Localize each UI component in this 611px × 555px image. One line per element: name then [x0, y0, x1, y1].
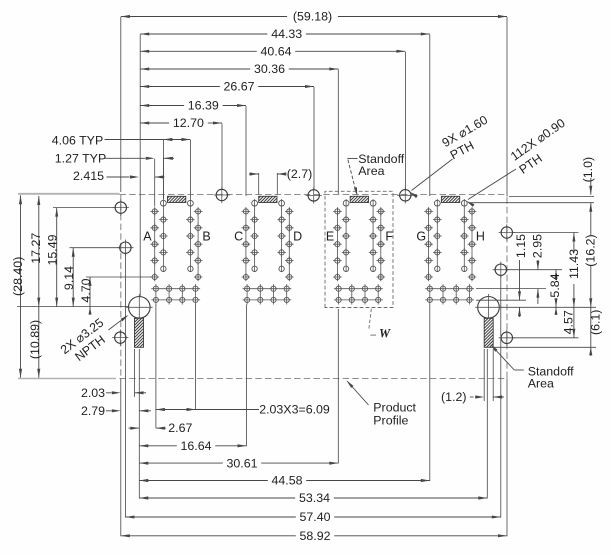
svg-text:2.03: 2.03 [81, 386, 105, 400]
svg-text:57.40: 57.40 [299, 510, 330, 524]
board outline left edge (dashed product profile) [120, 195, 122, 379]
pin column C (lead lines) [245, 208, 247, 281]
svg-text:4.57: 4.57 [562, 310, 576, 334]
dimension 4.57 right [573, 307, 575, 338]
svg-text:F: F [385, 229, 393, 243]
dimension 40.64 (top) [140, 50, 257, 52]
dimension 9.14 left [72, 248, 74, 307]
standoff hatch rectangle group A-B [168, 196, 186, 202]
svg-text:30.61: 30.61 [226, 456, 257, 470]
svg-text:Profile: Profile [373, 414, 408, 428]
board outline top edge (gray extension, left) [18, 193, 120, 195]
pin column A inner pins [161, 200, 167, 206]
NPTH hole right (2X D3.25) [478, 297, 500, 319]
svg-text:Product: Product [373, 401, 416, 415]
extension line y=338 (right PTH row 2) [514, 337, 579, 339]
svg-text:2.95: 2.95 [530, 234, 544, 258]
dimension 17.27 left [38, 196, 40, 307]
PTH hole left 3 [112, 329, 128, 345]
svg-text:1.27 TYP: 1.27 TYP [55, 151, 106, 165]
standoff hatch rectangle group G-H [441, 196, 459, 202]
extension line y=306.6 (NPTH left center row) [17, 306, 128, 308]
leader to NPTH right standoff bar [514, 369, 524, 371]
dimension 53.34 (bottom) [139, 497, 295, 499]
dimension (2.7) hatch width [258, 173, 260, 195]
pin column E outer pins [333, 207, 342, 216]
leader to standoff hatch E-F (dashed) [347, 158, 357, 160]
extension line x=338.3 (column E, bottom) [337, 309, 339, 464]
NPTH hole left (2X D3.25) [129, 297, 151, 319]
dimension 26.67 (top) [140, 86, 220, 88]
NPTH right standoff hatch bar [484, 318, 493, 347]
extension line y=307.3 (NPTH right center row) [501, 306, 597, 308]
extension line y=247.7 (left inset PTH row) [70, 247, 119, 249]
svg-text:E: E [326, 229, 334, 243]
svg-text:(6.1): (6.1) [588, 310, 602, 335]
PTH hole top 1 [214, 187, 230, 203]
extension line x=429.8 (column G, bottom) [429, 305, 431, 481]
dimension 16.39 (top) [140, 105, 184, 107]
pin column B inner pins [188, 200, 194, 206]
bottom pin grid group G-H pins [427, 286, 432, 291]
extension line x=507 (board right edge, bottom) [506, 379, 508, 537]
dimension 4.70 left [89, 277, 91, 307]
extension line y=347.3 (hatch bar bottom, right) [494, 346, 596, 348]
svg-text:16.64: 16.64 [180, 439, 211, 453]
svg-text:(16.2): (16.2) [583, 234, 597, 266]
svg-text:30.36: 30.36 [254, 62, 285, 76]
svg-text:4.70: 4.70 [79, 278, 93, 302]
pin column C inner pins [252, 200, 258, 206]
svg-text:Area: Area [358, 164, 384, 178]
pin column F outer pins [377, 207, 386, 216]
svg-text:44.33: 44.33 [271, 27, 302, 41]
svg-text:5.84: 5.84 [548, 273, 562, 297]
pin column F (lead lines) [372, 199, 374, 272]
leader arrow to NPTH left [108, 316, 126, 330]
svg-text:58.92: 58.92 [299, 529, 330, 543]
dimension 44.33 (top) [140, 33, 267, 35]
extension line x=134.5 (hatch bar left edge) [134, 349, 136, 397]
extension line x=500.8 (right inset PTH column, bottom) [500, 276, 502, 518]
extension line x=222 (PTH top 1) [221, 124, 223, 189]
bottom pin grid group E-F pins [336, 286, 341, 291]
svg-text:12.70: 12.70 [173, 116, 204, 130]
svg-text:15.49: 15.49 [45, 234, 59, 265]
extension line y=288.6 (grid row 1, right) [476, 288, 546, 290]
extension line y=196.5 (top edge, right) [509, 196, 594, 198]
svg-text:53.34: 53.34 [299, 491, 330, 505]
dimension (10.89) left [38, 307, 40, 378]
svg-text:17.27: 17.27 [29, 233, 43, 264]
extension line y=300.2 (grid row 2, right) [476, 299, 526, 301]
svg-text:9.14: 9.14 [62, 266, 76, 290]
extension line x=125.4 (left inset PTH column, bottom) [124, 254, 126, 518]
bottom pin grid group G-H (lead lines) [425, 288, 474, 290]
pin column E (lead lines) [336, 208, 338, 281]
standoff hatch rectangle group E-F [350, 196, 368, 202]
extension line x=120.8 (board left edge, bottom) [120, 379, 122, 537]
dimension 57.40 (bottom) [125, 516, 295, 518]
extension line y=232.5 (right PTH row 1) [514, 232, 579, 234]
extension line x=156.1 (grid column 1) [155, 304, 157, 428]
dimension 2.03X3=6.09 (bottom grid pitch) [156, 409, 196, 411]
board outline bottom edge (gray extension, left) [18, 378, 116, 380]
svg-text:11.43: 11.43 [567, 249, 581, 279]
PTH hole right 1 [499, 224, 515, 240]
bottom pin grid group A-B (lead lines) [151, 288, 200, 290]
board outline bottom edge (dashed product profile) [120, 378, 508, 380]
leader to W label (dashed) [369, 309, 372, 331]
extension line y=269.7 (right inset PTH row) [508, 269, 563, 271]
extension line y=202.7 (first pin row, right) [470, 202, 594, 204]
dimension (16.2) right [590, 203, 592, 235]
extension line x=246.5 (column C, bottom) [246, 305, 248, 447]
extension line x=140.2 (NPTH left center column) [139, 35, 141, 297]
svg-text:2.79: 2.79 [81, 404, 105, 418]
extension line x=507 for (59.18) [506, 17, 508, 197]
svg-text:B: B [202, 229, 210, 243]
extension line y=207.6 (left PTH row) [53, 207, 114, 209]
dimension 44.58 (bottom) [139, 480, 267, 482]
pin column D outer pins [285, 207, 294, 216]
dimension 58.92 (bottom) [121, 535, 296, 537]
bottom pin grid group C-D pins [245, 286, 250, 291]
svg-text:W: W [379, 327, 391, 341]
dimension 2.67 (bottom) [130, 427, 139, 430]
pin column D inner pins [279, 200, 285, 206]
svg-text:26.67: 26.67 [223, 80, 254, 94]
svg-text:44.58: 44.58 [271, 474, 302, 488]
pin column G (lead lines) [428, 208, 430, 281]
extension line x=429.8 (column G) [429, 35, 431, 197]
dimension 30.61 (bottom) [139, 462, 223, 464]
pin column H (lead lines) [463, 199, 465, 272]
svg-text:Area: Area [528, 377, 554, 391]
dimension (28.40) left [20, 195, 22, 377]
dimension (6.1) right [590, 307, 592, 347]
PTH hole right 3 [499, 330, 515, 346]
svg-text:(10.89): (10.89) [28, 320, 42, 359]
pin column A (lead lines) [154, 208, 156, 281]
svg-text:(28.40): (28.40) [11, 257, 25, 296]
svg-text:G: G [416, 229, 426, 243]
extension line x=246 (column C) [245, 106, 247, 196]
extension line x=338.3 (column E) [337, 70, 339, 195]
dimension 30.36 (top) [140, 68, 250, 70]
pin column H outer pins [468, 207, 477, 216]
leader arrow to PTH top 3 [412, 159, 453, 191]
svg-text:H: H [476, 229, 485, 243]
pin column A outer pins [150, 207, 159, 216]
svg-text:16.39: 16.39 [188, 99, 219, 113]
extension line x=120.8 for (59.18) [120, 17, 122, 192]
PTH hole top 3 [397, 187, 413, 203]
pin column B outer pins [194, 207, 203, 216]
svg-text:A: A [143, 229, 152, 243]
svg-text:2.03X3=6.09: 2.03X3=6.09 [259, 403, 330, 417]
svg-text:D: D [293, 229, 302, 243]
extension line x=196.3 (grid column 4) [195, 304, 197, 410]
dimension 12.70 (top) [140, 122, 169, 124]
standoff hatch rectangle group C-D [259, 196, 277, 202]
pin column D (lead lines) [281, 199, 283, 272]
pin column H inner pins [461, 200, 467, 206]
svg-text:2.415: 2.415 [73, 169, 104, 183]
svg-text:C: C [234, 229, 243, 243]
dimension (59.18) (top) [121, 16, 287, 18]
pin column B (lead lines) [189, 199, 191, 272]
bottom pin grid group E-F (lead lines) [334, 288, 383, 290]
NPTH left standoff hatch bar [135, 318, 144, 347]
svg-text:(59.18): (59.18) [293, 10, 332, 24]
standoff area W dashed box [325, 191, 393, 307]
dimension 15.49 left [56, 208, 58, 307]
extension line x=139.3 (NPTH left center, bottom) [138, 349, 140, 498]
extension line x=487.3 (NPTH right center, bottom) [486, 349, 488, 498]
PTH hole top 2 [306, 187, 322, 203]
bottom pin grid group C-D (lead lines) [243, 288, 292, 290]
svg-text:(1.0): (1.0) [581, 157, 595, 182]
svg-text:(1.2): (1.2) [441, 390, 466, 404]
PTH hole right 2 [493, 262, 509, 278]
dimension 5.84 right [555, 270, 557, 277]
PTH hole left 1 [113, 199, 129, 215]
dimension 16.64 (bottom) [139, 445, 177, 447]
bottom pin grid group A-B pins [153, 286, 158, 291]
svg-text:40.64: 40.64 [260, 45, 291, 59]
svg-text:4.06 TYP: 4.06 TYP [52, 133, 103, 147]
board outline top edge (dashed product profile) [120, 194, 508, 196]
pin column G inner pins [434, 200, 440, 206]
extension line x=314 (PTH top 2) [313, 87, 315, 189]
pin column E inner pins [343, 200, 349, 206]
leader to product profile dashed line [348, 382, 369, 406]
extension line x=405.4 (PTH top 3) [404, 52, 406, 189]
dimension 11.43 right [573, 233, 575, 254]
board outline right edge (dashed product profile) [506, 197, 508, 378]
leader arrow to pin in column G [468, 169, 516, 200]
extension line y=277 (bottom of pin columns) [86, 276, 152, 278]
pin column G outer pins [424, 207, 433, 216]
pin column F inner pins [370, 200, 376, 206]
PTH hole left 2 [117, 240, 133, 256]
svg-text:(2.7): (2.7) [287, 167, 312, 181]
svg-text:1.15: 1.15 [514, 234, 528, 258]
pin column C outer pins [242, 207, 251, 216]
svg-text:2.67: 2.67 [168, 421, 192, 435]
